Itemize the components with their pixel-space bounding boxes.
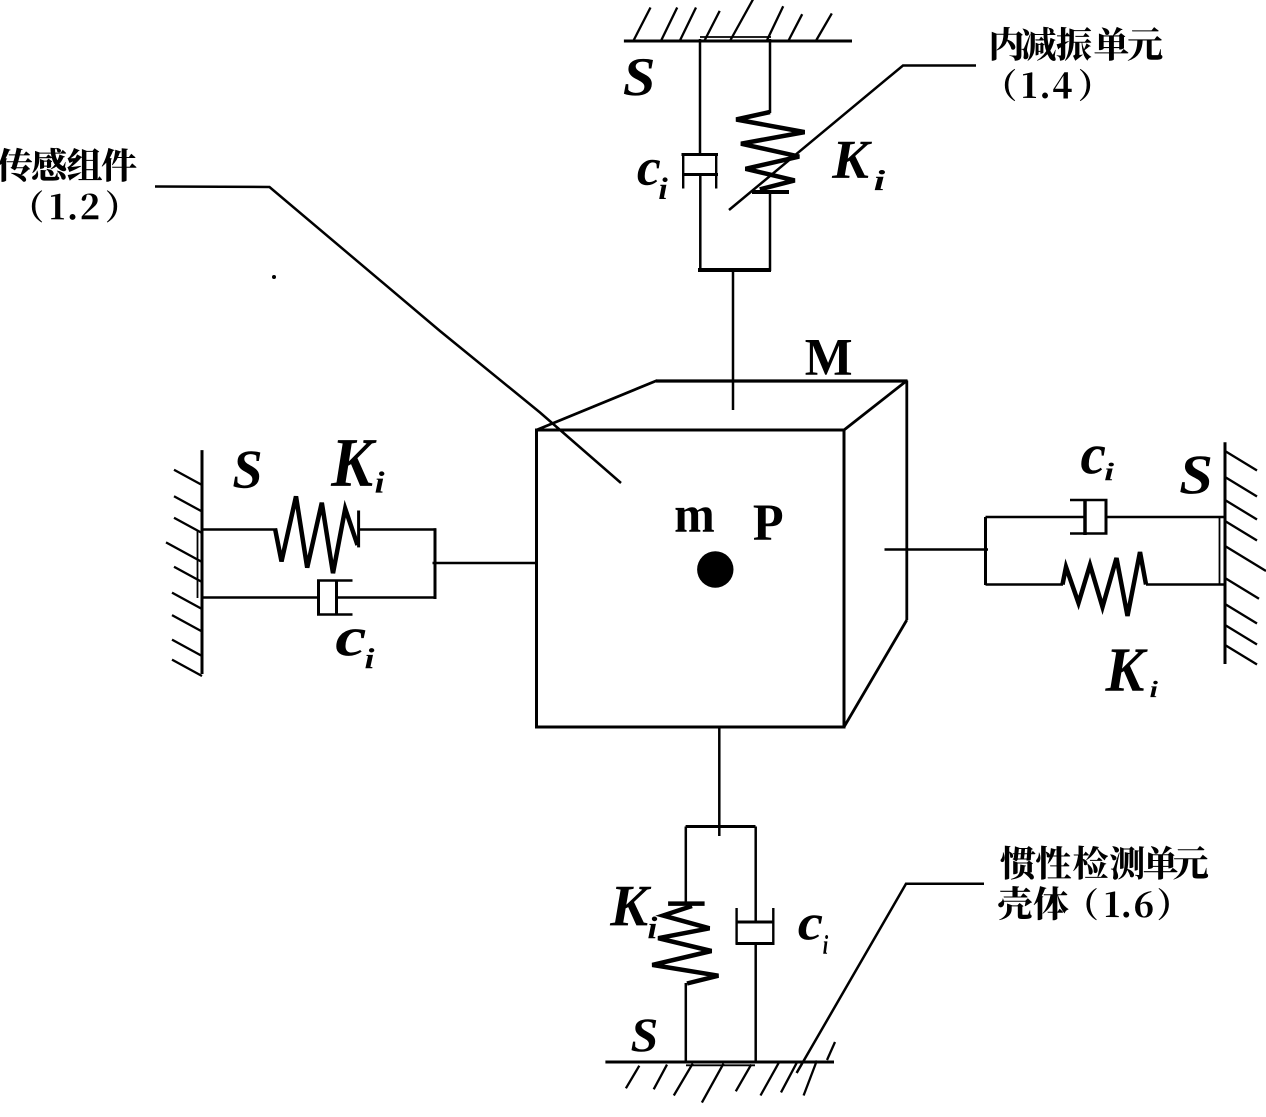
label c_i left <box>336 629 365 656</box>
wire wall to damper left <box>203 596 319 599</box>
wall S left <box>198 450 203 674</box>
label 传感组件 <box>0 148 137 182</box>
wire damper to connector <box>699 175 702 271</box>
spring Ki right (zigzag) <box>1063 552 1147 616</box>
bracket right assembly <box>984 517 987 585</box>
label (1.2) <box>32 190 117 222</box>
speck <box>272 275 276 279</box>
mass M cube top face <box>537 381 908 431</box>
wire bracket to damper right <box>986 516 1086 519</box>
damper Ci top (cylinder+piston) <box>682 154 719 189</box>
connector bar bottom assembly <box>686 825 756 828</box>
leader line (1.2) <box>155 187 621 484</box>
label m <box>675 507 713 532</box>
wire damper to bracket left <box>337 596 437 599</box>
wire rod mass to connector bottom <box>718 727 721 836</box>
label 壳体(1.6) <box>998 886 1169 920</box>
wire damper to ground <box>754 944 757 1062</box>
ceiling hatching <box>634 0 832 40</box>
label 惯性检测单元 <box>1001 846 1209 880</box>
leader line (1.4) <box>729 66 976 211</box>
wire damper-rod top <box>699 39 702 155</box>
wall S top (ceiling) <box>624 37 852 41</box>
wire rod to mass left <box>433 562 537 565</box>
mass M cube right face <box>844 381 907 728</box>
label c_i bottom <box>799 915 823 940</box>
label S left <box>233 451 260 488</box>
wall S right <box>1220 442 1226 664</box>
left wall hatching <box>166 470 202 676</box>
wire output rod to mass top <box>732 270 735 410</box>
spring Ki bottom (zigzag) <box>652 904 718 984</box>
label K_i right <box>1105 649 1148 690</box>
label K_i left <box>331 440 377 486</box>
damper Ci left (cylinder+piston) <box>317 580 353 615</box>
label c_i right <box>1081 446 1105 474</box>
label 内减振单元 <box>992 27 1163 61</box>
wire wall to spring left <box>203 528 277 531</box>
label K_i top <box>832 142 872 178</box>
spring Ki left (zigzag) <box>275 496 359 573</box>
wire connector to damper bottom <box>754 827 757 922</box>
label S right <box>1180 456 1210 494</box>
connector bar top assembly <box>698 268 771 272</box>
label S top <box>624 59 653 96</box>
wire spring to ground <box>685 983 688 1062</box>
mass M cube front face <box>537 430 845 727</box>
wire spring to connector <box>769 192 772 271</box>
label S bottom <box>631 1019 656 1052</box>
label P <box>754 506 782 540</box>
wire spring to bracket left <box>359 528 436 531</box>
bracket left assembly <box>434 528 437 599</box>
damper Ci right (cylinder+piston) <box>1070 499 1108 535</box>
label M <box>806 340 851 375</box>
label (1.4) <box>1005 69 1090 101</box>
wire damper to wall right <box>1106 516 1225 519</box>
spring Ki top (zigzag) <box>736 112 804 192</box>
wire connector to spring bottom <box>685 827 688 903</box>
wire spring to wall right <box>1146 583 1225 586</box>
damper Ci bottom (cylinder+piston) <box>736 908 775 944</box>
label c_i top <box>638 160 660 186</box>
wire rod mass to bracket right <box>885 548 989 551</box>
node P (center of mass dot) <box>697 551 733 587</box>
ground hatching <box>626 1042 835 1103</box>
label K_i bottom <box>610 887 652 926</box>
wall S bottom (ground) <box>605 1062 834 1065</box>
right wall hatching <box>1225 451 1266 665</box>
wire spring-rod top <box>769 39 772 113</box>
wire bracket to spring right <box>986 583 1064 586</box>
leader line (1.6) <box>797 884 984 1073</box>
